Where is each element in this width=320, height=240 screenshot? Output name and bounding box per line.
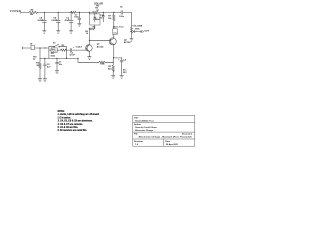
svg-text:10k: 10k	[108, 18, 112, 20]
svg-text:File: File	[134, 134, 138, 136]
svg-text:Bastock/Matic Fuzz: Bastock/Matic Fuzz	[135, 119, 154, 122]
svg-text:Date: Date	[166, 140, 171, 143]
svg-text:R4: R4	[93, 26, 96, 29]
svg-text:100uF: 100uF	[37, 20, 44, 22]
svg-text:29-Apr-2021: 29-Apr-2021	[166, 143, 179, 146]
svg-text:100k: 100k	[50, 55, 55, 57]
svg-text:4u7: 4u7	[79, 45, 83, 48]
svg-text:+: +	[73, 47, 75, 49]
svg-text:Revision: Revision	[134, 141, 143, 143]
svg-text:100n: 100n	[74, 17, 79, 19]
svg-text:1.0: 1.0	[135, 144, 139, 146]
svg-text:S1: S1	[53, 42, 56, 44]
svg-text:100k: 100k	[135, 29, 140, 31]
svg-text:100: 100	[30, 14, 34, 16]
svg-text:AC128: AC128	[97, 45, 104, 48]
svg-text:R8: R8	[31, 10, 35, 12]
svg-text:1k: 1k	[86, 33, 89, 35]
svg-text:C4: C4	[123, 58, 127, 61]
svg-text:8k2: 8k2	[108, 69, 112, 71]
svg-text:C6: C6	[120, 6, 124, 8]
svg-text:Electronic Charge - Bastock (F: Electronic Charge - Bastock (Fuzz Face).…	[139, 136, 193, 139]
svg-text:4.7uF: 4.7uF	[70, 54, 76, 57]
svg-text:6. All resistors are metal fil: 6. All resistors are metal film.	[58, 129, 88, 132]
svg-text:47uF: 47uF	[65, 19, 71, 22]
svg-text:100k: 100k	[100, 64, 105, 66]
svg-text:100n: 100n	[119, 16, 124, 18]
svg-text:10n: 10n	[59, 64, 63, 66]
svg-text:+: +	[118, 59, 120, 61]
svg-text:TP2: TP2	[96, 6, 99, 8]
svg-text:Electronic Charge: Electronic Charge	[135, 129, 154, 132]
svg-text:100uF: 100uF	[51, 20, 58, 22]
svg-text:VOLUME: VOLUME	[132, 26, 142, 28]
svg-text:POWER: POWER	[10, 9, 21, 13]
svg-text:Author: Author	[134, 123, 141, 126]
svg-text:Drawn by Chuck D. Bones: Drawn by Chuck D. Bones	[135, 126, 157, 129]
svg-text:10n: 10n	[99, 18, 103, 20]
svg-text:OUT: OUT	[144, 30, 149, 32]
svg-text:Gain: Gain	[51, 49, 55, 51]
svg-text:Title: Title	[134, 116, 139, 119]
svg-text:Qbias Trim: Qbias Trim	[113, 26, 124, 29]
svg-text:4u7: 4u7	[47, 65, 51, 68]
svg-text:Document: Document	[182, 133, 192, 136]
svg-text:1M: 1M	[36, 65, 39, 67]
svg-text:BC108: BC108	[124, 42, 131, 44]
svg-text:25V: 25V	[123, 72, 127, 74]
svg-text:9V: 9V	[96, 10, 99, 12]
